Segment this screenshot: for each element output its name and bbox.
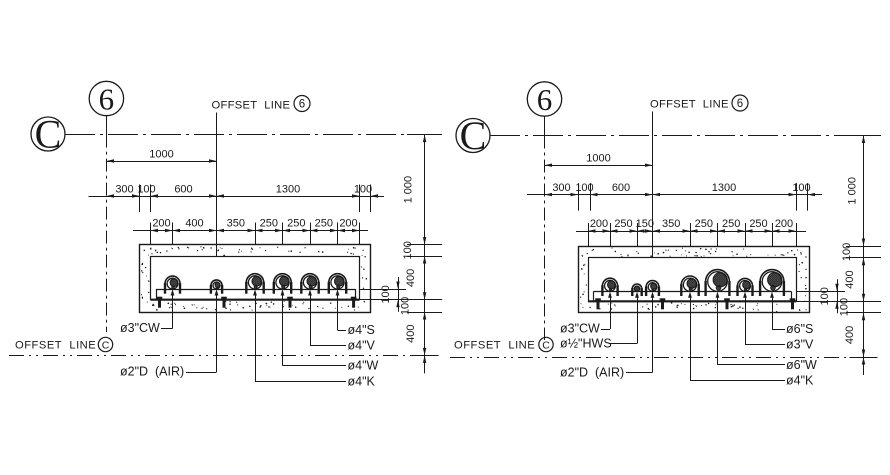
svg-text:300: 300: [115, 184, 133, 196]
svg-text:6: 6: [537, 82, 553, 117]
svg-text:6: 6: [299, 99, 305, 111]
svg-text:200: 200: [775, 218, 793, 230]
svg-text:100: 100: [792, 182, 810, 194]
svg-text:OFFSET LINE: OFFSET LINE: [454, 340, 535, 352]
svg-text:1 000: 1 000: [403, 176, 415, 204]
svg-text:1000: 1000: [149, 149, 173, 161]
svg-text:300: 300: [552, 182, 570, 194]
svg-text:6: 6: [99, 81, 115, 116]
svg-text:1000: 1000: [586, 153, 610, 165]
svg-text:100: 100: [839, 298, 851, 316]
svg-text:ø3"CW: ø3"CW: [120, 321, 160, 335]
svg-text:100: 100: [819, 287, 831, 305]
svg-text:100: 100: [575, 182, 593, 194]
svg-text:400: 400: [185, 218, 203, 230]
svg-text:1300: 1300: [712, 182, 736, 194]
svg-text:C: C: [460, 113, 487, 158]
svg-text:C: C: [35, 112, 62, 157]
svg-text:400: 400: [844, 326, 856, 344]
svg-text:100: 100: [380, 285, 392, 303]
svg-text:400: 400: [844, 270, 856, 288]
svg-text:250: 250: [749, 218, 767, 230]
svg-text:250: 250: [695, 218, 713, 230]
svg-text:6: 6: [737, 98, 743, 110]
svg-text:ø4"W: ø4"W: [348, 359, 379, 373]
svg-text:100: 100: [354, 184, 372, 196]
svg-text:C: C: [542, 340, 550, 352]
svg-text:200: 200: [590, 218, 608, 230]
svg-text:ø4"S: ø4"S: [348, 323, 375, 337]
svg-text:ø2"D (AIR): ø2"D (AIR): [560, 366, 624, 380]
svg-text:ø6"S: ø6"S: [786, 322, 813, 336]
svg-text:350: 350: [662, 218, 680, 230]
svg-text:250: 250: [722, 218, 740, 230]
svg-text:100: 100: [402, 241, 414, 259]
svg-text:250: 250: [315, 218, 333, 230]
svg-text:250: 250: [287, 218, 305, 230]
svg-text:OFFSET LINE: OFFSET LINE: [15, 340, 96, 352]
svg-text:OFFSET LINE: OFFSET LINE: [650, 99, 729, 111]
svg-text:ø4"V: ø4"V: [348, 339, 376, 353]
svg-text:ø4"K: ø4"K: [786, 374, 814, 388]
svg-text:150: 150: [636, 218, 654, 230]
svg-text:ø2"D (AIR): ø2"D (AIR): [120, 365, 184, 379]
svg-text:ø3"CW: ø3"CW: [560, 322, 600, 336]
svg-text:100: 100: [137, 184, 155, 196]
svg-text:ø6"W: ø6"W: [786, 358, 817, 372]
svg-text:100: 100: [841, 243, 853, 261]
svg-text:ø4"K: ø4"K: [348, 375, 376, 389]
svg-text:200: 200: [152, 218, 170, 230]
svg-text:400: 400: [405, 325, 417, 343]
svg-text:1300: 1300: [276, 184, 300, 196]
svg-text:600: 600: [174, 184, 192, 196]
svg-text:ø3"V: ø3"V: [786, 338, 814, 352]
svg-text:OFFSET LINE: OFFSET LINE: [212, 100, 291, 112]
svg-text:400: 400: [405, 269, 417, 287]
svg-text:1 000: 1 000: [847, 177, 859, 205]
svg-text:100: 100: [400, 297, 412, 315]
svg-text:250: 250: [260, 218, 278, 230]
svg-text:C: C: [102, 340, 110, 352]
svg-text:250: 250: [614, 218, 632, 230]
svg-text:ø½"HWS: ø½"HWS: [560, 337, 612, 351]
svg-text:200: 200: [339, 218, 357, 230]
svg-text:350: 350: [227, 218, 245, 230]
svg-text:600: 600: [612, 182, 630, 194]
